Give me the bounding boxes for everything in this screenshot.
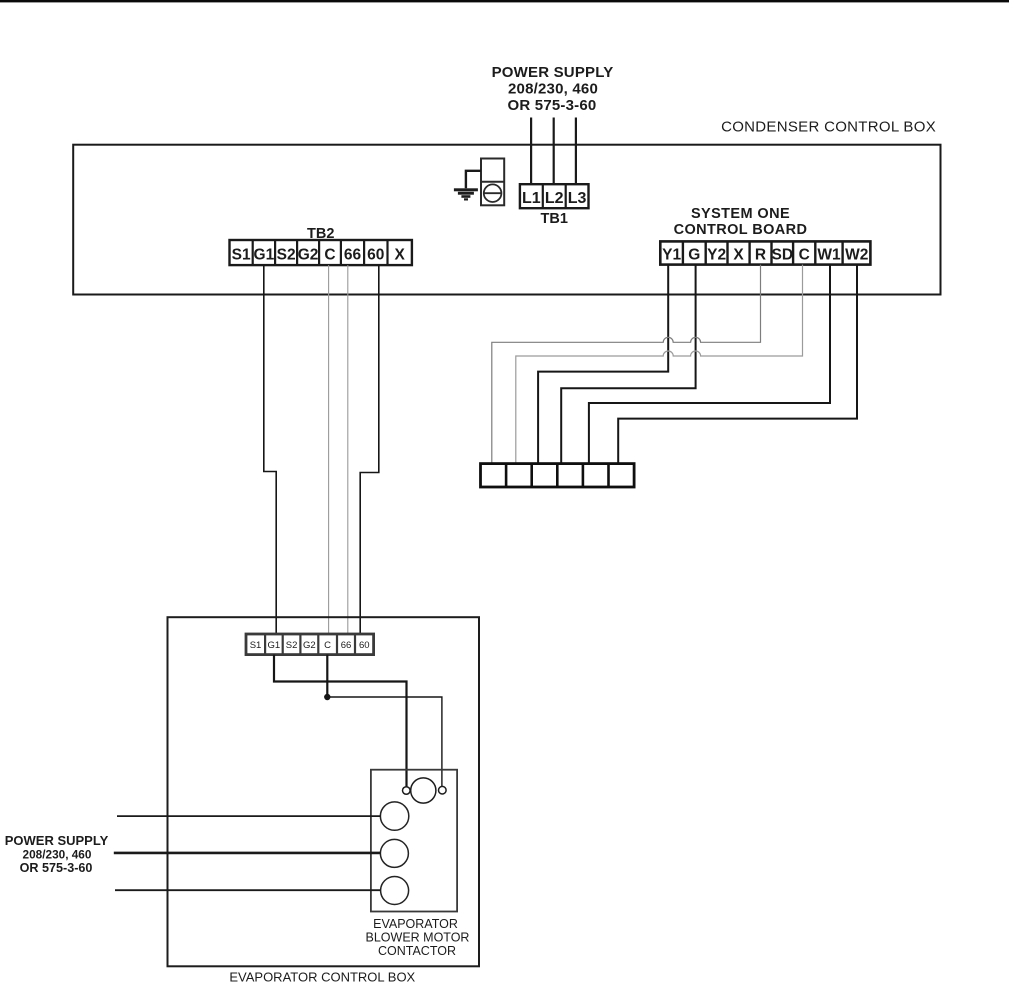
wire L2 xyxy=(553,118,555,185)
top page rule xyxy=(0,0,1009,2)
svg-text:BLOWER MOTOR: BLOWER MOTOR xyxy=(366,931,470,945)
label: EVAPORATOR BLOWER MOTOR CONTACTOR xyxy=(366,917,470,958)
wire L3 xyxy=(575,118,577,185)
ground symbol xyxy=(454,188,478,200)
wire G1 (TB2 to evaporator strip) xyxy=(264,265,276,634)
svg-text:L2: L2 xyxy=(545,190,564,207)
svg-text:S2: S2 xyxy=(286,640,298,651)
wire 60 (TB2 to evaporator strip) xyxy=(360,265,379,634)
svg-text:208/230, 460: 208/230, 460 xyxy=(508,81,598,98)
wire C (TB2 to evaporator strip) xyxy=(328,265,330,634)
power line 1 xyxy=(117,815,380,817)
svg-text:CONDENSER CONTROL BOX: CONDENSER CONTROL BOX xyxy=(721,119,936,136)
ground lug box xyxy=(481,159,504,206)
svg-text:G2: G2 xyxy=(303,640,316,651)
label: SYSTEM ONE CONTROL BOARD xyxy=(674,206,808,238)
svg-text:OR 575-3-60: OR 575-3-60 xyxy=(508,97,597,114)
svg-text:R: R xyxy=(755,247,766,264)
svg-text:W1: W1 xyxy=(817,247,841,264)
power line 2 xyxy=(114,852,381,855)
wire junction to contactor coil xyxy=(327,697,442,786)
condenser control box xyxy=(73,145,940,295)
svg-text:C: C xyxy=(324,640,331,651)
svg-text:L3: L3 xyxy=(568,190,587,207)
svg-text:60: 60 xyxy=(367,247,384,264)
coil terminal right xyxy=(439,786,447,794)
svg-text:W2: W2 xyxy=(845,247,868,264)
svg-text:POWER SUPPLY: POWER SUPPLY xyxy=(492,64,614,81)
terminal block TB2 xyxy=(230,240,412,265)
wire W1 xyxy=(589,265,830,464)
svg-text:C: C xyxy=(324,247,335,264)
wire R (with hops over Y1,G) xyxy=(492,265,761,464)
wire G xyxy=(561,265,695,464)
svg-text:POWER SUPPLY: POWER SUPPLY xyxy=(5,833,109,848)
wire L1 xyxy=(530,118,532,185)
svg-text:X: X xyxy=(395,247,406,264)
svg-text:66: 66 xyxy=(341,640,352,651)
junction dot xyxy=(324,694,330,700)
svg-text:G2: G2 xyxy=(298,247,319,264)
svg-text:208/230, 460: 208/230, 460 xyxy=(23,848,92,862)
svg-text:CONTACTOR: CONTACTOR xyxy=(378,944,456,958)
svg-text:L1: L1 xyxy=(522,190,541,207)
contact pole 2 xyxy=(380,839,408,867)
coil circle xyxy=(411,778,436,803)
svg-text:G1: G1 xyxy=(268,640,281,651)
svg-text:S1: S1 xyxy=(232,247,251,264)
svg-text:G: G xyxy=(688,247,700,264)
wire 66 (TB2 to evaporator strip) xyxy=(347,265,349,634)
terminal strip: system one control board xyxy=(660,241,870,264)
svg-text:OR 575-3-60: OR 575-3-60 xyxy=(20,861,93,875)
wire C (with hops over Y1,G) xyxy=(516,265,803,464)
svg-text:X: X xyxy=(733,247,744,264)
power line 3 xyxy=(115,889,381,891)
ground wire xyxy=(466,171,481,189)
svg-text:TB1: TB1 xyxy=(540,211,567,227)
wire G1 to contactor coil xyxy=(274,655,407,787)
evaporator control box xyxy=(168,617,480,966)
wire W2 xyxy=(618,265,857,464)
svg-text:SD: SD xyxy=(772,247,794,264)
svg-text:SYSTEM ONE: SYSTEM ONE xyxy=(691,206,790,222)
svg-text:Y1: Y1 xyxy=(662,247,681,264)
coil terminal left xyxy=(403,787,411,795)
svg-text:EVAPORATOR: EVAPORATOR xyxy=(373,917,458,931)
svg-text:S2: S2 xyxy=(277,247,296,264)
svg-text:C: C xyxy=(799,247,810,264)
contact pole 3 xyxy=(381,877,409,905)
terminal block TB1 xyxy=(520,184,589,208)
svg-text:G1: G1 xyxy=(254,247,275,264)
svg-text:EVAPORATOR CONTROL BOX: EVAPORATOR CONTROL BOX xyxy=(229,970,415,985)
unlabeled terminal strip xyxy=(481,464,635,487)
wire Y1 xyxy=(538,265,668,464)
label: POWER SUPPLY (left) xyxy=(5,833,109,875)
svg-text:60: 60 xyxy=(359,640,370,651)
svg-text:Y2: Y2 xyxy=(707,247,726,264)
evaporator terminal strip xyxy=(246,634,374,655)
contact pole 1 xyxy=(380,802,408,830)
svg-text:CONTROL BOARD: CONTROL BOARD xyxy=(674,222,808,238)
label: POWER SUPPLY (top) xyxy=(492,64,614,114)
svg-text:S1: S1 xyxy=(250,640,262,651)
svg-text:66: 66 xyxy=(344,247,362,264)
wire C to junction xyxy=(326,655,328,697)
contactor box xyxy=(371,770,457,912)
